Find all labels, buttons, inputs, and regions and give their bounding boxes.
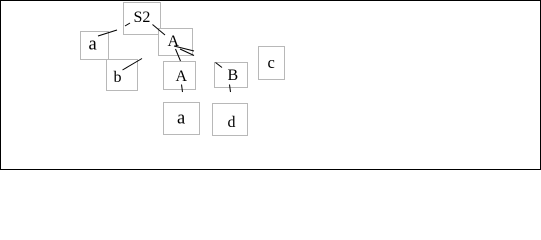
svg-text:A: A bbox=[168, 33, 180, 50]
node b box bbox=[107, 60, 138, 91]
node c box bbox=[259, 47, 285, 80]
border frame bbox=[1, 1, 541, 170]
edge stub into B bbox=[216, 63, 223, 68]
svg-text:a: a bbox=[89, 35, 97, 55]
node a1 box bbox=[81, 32, 109, 60]
svg-text:c: c bbox=[268, 53, 275, 72]
svg-text:d: d bbox=[228, 114, 236, 131]
node S2 box bbox=[124, 3, 161, 35]
svg-text:B: B bbox=[228, 67, 239, 84]
node a3 box bbox=[164, 103, 200, 135]
svg-text:S2: S2 bbox=[134, 9, 151, 26]
edge S2 to A1 bbox=[153, 25, 166, 36]
edge S2 to a1, piece in S2 box bbox=[125, 23, 130, 26]
svg-text:A: A bbox=[176, 68, 188, 85]
node A1 box bbox=[159, 29, 193, 56]
node A2 box bbox=[164, 62, 196, 90]
edge A2 to a3 bbox=[182, 85, 183, 93]
node B box bbox=[215, 63, 248, 88]
edge A1 toward c bbox=[174, 46, 194, 51]
edge A1 to A2 bbox=[176, 49, 181, 61]
edge B to d bbox=[230, 85, 231, 93]
edge S2 to a1, piece in a1 band bbox=[98, 30, 117, 36]
svg-text:a: a bbox=[177, 109, 185, 129]
edge A1 toward B bbox=[180, 49, 194, 56]
svg-text:b: b bbox=[114, 69, 122, 86]
edge stub from b bbox=[123, 59, 143, 71]
node d box bbox=[213, 104, 248, 136]
